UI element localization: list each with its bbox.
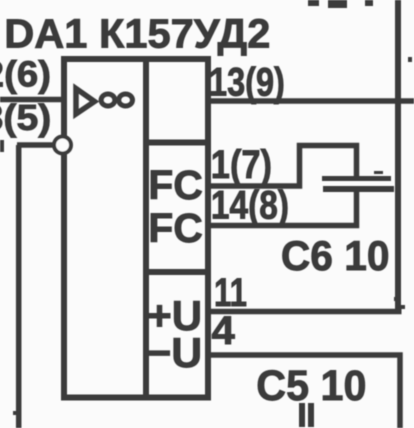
cut-off fragment at left edge near 3(5) wire (0, 140, 4, 152)
wire pin 11 (+U supply) (208, 309, 402, 315)
scan dot right of bus (408, 57, 412, 62)
svg-text:1(7): 1(7) (211, 142, 272, 187)
capacitor C5 right plate (308, 403, 314, 427)
wire pin 4 (-U supply) (208, 355, 400, 428)
svg-text:C5 10: C5 10 (256, 361, 366, 409)
wire pin 1(7) to loop over to capacitor C6 (208, 146, 357, 187)
node junction circle at pin 3(5) (54, 137, 71, 154)
op-amp triangle symbol (76, 89, 95, 115)
svg-text:DA1 К157УД2: DA1 К157УД2 (4, 11, 270, 57)
svg-text:14(8): 14(8) (211, 183, 289, 227)
svg-text:13(9): 13(9) (209, 59, 285, 104)
wire output pin 13(9) (208, 98, 414, 104)
capacitor C6 bottom plate (323, 186, 394, 192)
op-amp DA1 internal divider (143, 59, 149, 398)
column divider 1 (146, 140, 208, 146)
capacitor C6 top plate (322, 176, 391, 181)
op-amp infinity symbol (101, 94, 132, 106)
capacitor C6 polarity tick (374, 171, 383, 174)
wire branch down from 3(5) node (16, 145, 22, 428)
column divider 2 (146, 269, 208, 275)
svg-text:3(5): 3(5) (0, 97, 51, 137)
svg-text:FC: FC (148, 205, 203, 251)
svg-text:−U: −U (146, 329, 202, 376)
wire input 2(6) (0, 97, 64, 103)
svg-text:C6 10: C6 10 (281, 232, 390, 279)
scan nub left wire (13, 411, 17, 415)
cut-off label VD7 top right (308, 0, 319, 6)
svg-text:2(6): 2(6) (0, 54, 51, 95)
capacitor C5 left plate (299, 403, 305, 427)
wire input 3(5) (17, 142, 54, 148)
svg-text:4: 4 (212, 308, 236, 353)
scan nub on bus (394, 297, 398, 301)
scan nub near pin 11 corner (401, 305, 405, 309)
op-amp DA1 body outline (64, 59, 208, 398)
svg-text:FC: FC (148, 162, 203, 208)
wire pin 14(8) to capacitor C6 (208, 192, 357, 226)
wire vertical bus right (395, 0, 401, 314)
